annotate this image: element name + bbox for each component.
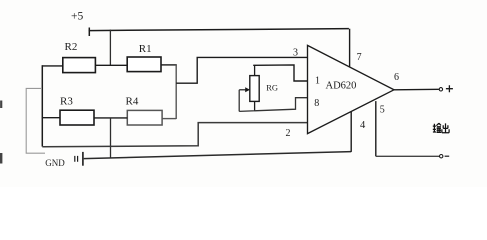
wire R3 right to R4 left <box>94 117 127 119</box>
svg-text:5: 5 <box>380 105 385 116</box>
wire output minus run <box>376 155 439 157</box>
wire R4 right lead <box>162 118 176 120</box>
svg-text:R3: R3 <box>60 95 73 107</box>
wire ground rail <box>84 152 352 159</box>
ground symbol ticks <box>75 156 78 162</box>
svg-text:3: 3 <box>293 47 298 58</box>
wire pin4 to ground rail <box>350 112 352 152</box>
wire right node to pin3 (step up) <box>176 57 307 83</box>
resistor R2 <box>63 41 96 73</box>
svg-text:4: 4 <box>360 120 366 131</box>
potentiometer RG assembly <box>239 65 307 112</box>
op-amp U1 AD620 triangle <box>308 45 395 133</box>
wire wiper down <box>238 90 240 112</box>
wire left node to pin2 (bottom run) <box>42 123 307 147</box>
wire left bridge node vertical <box>41 65 43 146</box>
svg-text:+5: +5 <box>71 11 83 23</box>
wire RG top <box>253 65 307 81</box>
svg-text:6: 6 <box>394 72 399 83</box>
wire RG top lead <box>254 65 256 76</box>
scan edge artifact top-left of figure <box>0 101 2 109</box>
resistor RG body <box>250 76 259 102</box>
svg-text:R4: R4 <box>126 95 139 107</box>
wire pin5 down to output minus <box>375 101 377 156</box>
svg-text:R1: R1 <box>139 43 152 55</box>
svg-text:RG: RG <box>266 83 278 93</box>
resistor R1 <box>127 43 161 71</box>
resistor R4 <box>126 95 163 125</box>
resistor R3 <box>60 95 94 125</box>
wire output plus from pin6 <box>394 88 439 91</box>
wire right bridge node vertical <box>175 65 177 119</box>
terminal plus circle <box>439 88 442 91</box>
terminal minus circle <box>440 155 443 158</box>
svg-text:1: 1 <box>315 75 320 86</box>
node +5 terminal tick <box>88 28 90 37</box>
wire R2 right to R1 left <box>95 64 127 66</box>
scan edge artifact bottom-left of figure <box>0 153 2 164</box>
output text 输出 (hand drawn strokes) <box>433 123 449 133</box>
svg-text:GND: GND <box>45 158 65 168</box>
wire R1 right lead <box>161 64 177 66</box>
wire pin7 from supply rail <box>349 29 351 67</box>
wire RG bottom lead <box>254 101 256 111</box>
wire RG bottom run to pin8 <box>239 98 307 112</box>
svg-text:AD620: AD620 <box>326 81 357 92</box>
wiper arrow <box>239 89 246 91</box>
svg-text:8: 8 <box>314 98 319 109</box>
svg-text:7: 7 <box>357 52 362 63</box>
wire faint outer loop at left node <box>26 88 45 153</box>
wire R2 left lead to left node <box>42 65 63 67</box>
wire rail to R2-R1 junction <box>109 30 111 66</box>
wire R3-R4 junction down to ground rail <box>110 118 112 158</box>
svg-text:R2: R2 <box>65 41 78 53</box>
plus sign <box>446 85 453 92</box>
minus sign <box>445 155 450 157</box>
svg-text:2: 2 <box>286 128 291 139</box>
wire top supply rail <box>89 29 349 31</box>
wire R3 left lead <box>42 117 60 119</box>
ground symbol bar <box>82 152 84 166</box>
